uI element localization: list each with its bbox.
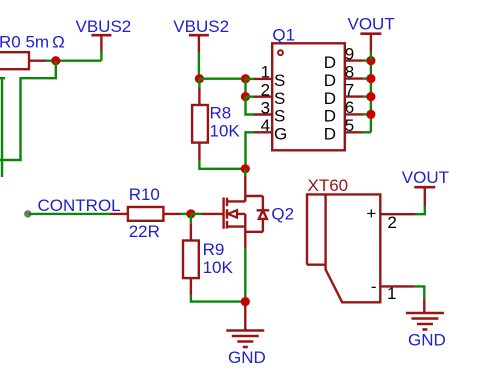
pin 2 stub Q1: [254, 95, 272, 97]
svg-text:10K: 10K: [203, 258, 234, 277]
svg-text:VBUS2: VBUS2: [76, 17, 132, 36]
power symbol VBUS2 (left): [91, 35, 111, 51]
node junction at R0 output: [51, 56, 60, 65]
wire pin7 to rail: [363, 95, 371, 97]
pin drain stub Q2: [244, 176, 246, 201]
svg-text:R9: R9: [203, 240, 225, 259]
wire VOUT rail vertical: [370, 61, 372, 133]
wire VBUS2 left down to R0 wire: [100, 51, 102, 61]
node A junction VBUS2/R8/pin1: [195, 74, 204, 83]
wire gate node to Q2 gate: [191, 213, 202, 215]
svg-text:9: 9: [345, 44, 354, 63]
svg-text:D: D: [324, 71, 336, 90]
resistor R10: [111, 207, 181, 221]
node drain junction R8/pin4/Q2: [241, 164, 250, 173]
wire pin8 to rail: [363, 77, 371, 79]
svg-text:D: D: [324, 53, 336, 72]
wire junction down-left branch: [0, 61, 56, 160]
svg-text:R10: R10: [129, 185, 160, 204]
svg-text:R0 5mΩ: R0 5mΩ: [0, 33, 65, 52]
wire pin2 to VOUT: [415, 206, 425, 215]
wire drain node to Q2: [244, 169, 246, 176]
svg-text:4: 4: [261, 116, 270, 135]
svg-text:VOUT: VOUT: [348, 15, 395, 34]
node gate junction: [186, 209, 195, 218]
pin 8 stub Q1: [345, 77, 363, 79]
svg-text:1: 1: [261, 63, 270, 82]
node pin1 junction: [241, 74, 250, 83]
wire pin5 to rail: [363, 131, 371, 133]
power symbol VBUS2 (center): [189, 35, 209, 52]
wire R8 bottom to drain node: [199, 161, 245, 169]
connector XT60: [307, 194, 380, 302]
node pin6 junction: [366, 110, 375, 119]
wire pin1 to GND: [415, 286, 425, 299]
svg-text:GND: GND: [408, 331, 446, 350]
svg-text:2: 2: [387, 213, 396, 232]
wire pin1 stub connect: [246, 78, 255, 80]
svg-text:G: G: [274, 124, 287, 143]
svg-text:3: 3: [261, 98, 270, 117]
ground GND (right): [406, 300, 444, 330]
svg-text:VBUS2: VBUS2: [173, 17, 229, 36]
pin 1 stub XT60: [380, 285, 415, 287]
node GND junction: [241, 297, 250, 306]
svg-text:1: 1: [387, 284, 396, 303]
wire R0 to VBUS2 junction: [46, 60, 101, 62]
svg-text:Q1: Q1: [272, 25, 295, 44]
svg-text:+: +: [366, 204, 376, 223]
wire pin9 to rail: [363, 59, 371, 61]
pin source stub Q2: [244, 227, 246, 248]
node pin9 junction: [366, 56, 375, 65]
svg-text:6: 6: [345, 98, 354, 117]
svg-text:-: -: [371, 277, 377, 296]
node pin7 junction: [366, 92, 375, 101]
wire left vertical branch: [0, 77, 5, 79]
ground GND (left): [226, 302, 264, 347]
pin 4 stub Q1: [254, 131, 272, 133]
wire VBUS2 center down to node A: [198, 52, 200, 79]
pin 5 stub Q1: [345, 131, 363, 133]
body diode of Q2: [245, 196, 269, 232]
svg-text:D: D: [324, 124, 336, 143]
svg-text:2: 2: [261, 81, 270, 100]
transistor Q1 (quad MOSFET SO-8 package) body: [272, 43, 345, 150]
wire gate node down to R9: [190, 214, 192, 223]
wire node A to pin1 node: [199, 77, 245, 79]
svg-text:D: D: [324, 107, 336, 126]
wire pin1 node to pin2 node: [244, 79, 246, 97]
resistor R8: [192, 88, 208, 161]
power symbol VOUT (top): [360, 34, 381, 51]
wire R10 to gate node: [181, 213, 191, 215]
wire pin6 to rail: [363, 113, 371, 115]
svg-text:Q2: Q2: [271, 205, 294, 224]
wire pin2 node down to pin3: [246, 97, 255, 115]
svg-text:5: 5: [345, 116, 354, 135]
power symbol VOUT (right): [414, 187, 435, 205]
node pin8 junction: [366, 74, 375, 83]
node pin2 junction: [241, 92, 250, 101]
svg-text:S: S: [274, 89, 285, 108]
pin 1 stub Q1: [254, 78, 272, 80]
svg-text:XT60: XT60: [308, 176, 349, 195]
transistor Q2 N-MOSFET: [202, 196, 246, 229]
svg-text:S: S: [274, 107, 285, 126]
wire R9 bottom to GND node: [191, 295, 245, 301]
svg-text:VOUT: VOUT: [402, 168, 449, 187]
svg-text:7: 7: [345, 80, 354, 99]
svg-text:D: D: [324, 89, 336, 108]
svg-text:22R: 22R: [129, 222, 160, 241]
svg-text:R8: R8: [210, 103, 232, 122]
pin 9 stub Q1: [345, 59, 363, 61]
node CONTROL dangling end: [24, 210, 31, 217]
wire pin2 stub connect: [246, 95, 255, 97]
svg-text:CONTROL: CONTROL: [38, 196, 121, 215]
wire node A down to R8 pin: [198, 79, 200, 88]
pin 6 stub Q1: [345, 113, 363, 115]
wire CONTROL to R10: [29, 213, 111, 215]
pin 2 stub XT60: [380, 213, 415, 215]
wire pin4 to drain node: [246, 132, 255, 169]
pin 3 stub Q1: [254, 113, 272, 115]
svg-text:10K: 10K: [210, 121, 241, 140]
resistor R0: [0, 52, 46, 69]
svg-text:GND: GND: [228, 348, 266, 367]
svg-text:S: S: [274, 71, 285, 90]
wire Q2 source to GND node: [244, 248, 246, 302]
wire VOUT to pin9 node: [370, 51, 372, 61]
svg-text:8: 8: [345, 62, 354, 81]
pin 7 stub Q1: [345, 95, 363, 97]
resistor R9: [183, 223, 199, 295]
